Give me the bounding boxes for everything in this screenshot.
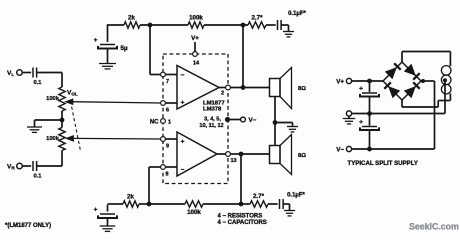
node junction top-left (pin7 feedback) xyxy=(148,23,153,28)
label 2k (top) xyxy=(128,15,135,22)
capacitor 0.1 (VR coupling) xyxy=(33,161,37,171)
label 2k (bottom) xyxy=(127,194,134,201)
label VOL xyxy=(67,90,78,97)
note LM1877 only xyxy=(5,223,51,229)
wire pin 9 to op-amp xyxy=(165,138,177,140)
label 0.1 (VR) xyxy=(33,173,42,179)
svg-text:V+: V+ xyxy=(191,35,199,42)
svg-text:0.1: 0.1 xyxy=(33,173,42,179)
svg-text:1: 1 xyxy=(168,120,171,126)
node pins to V- xyxy=(225,117,230,122)
svg-text:V−: V− xyxy=(336,147,344,154)
resistor 2.7 (top zobel) xyxy=(248,22,266,28)
label 100k (top) xyxy=(189,15,203,22)
label 100k (bottom) xyxy=(187,209,201,216)
gang dashed link between wipers xyxy=(71,101,81,151)
svg-text:4 − CAPACITORS: 4 − CAPACITORS xyxy=(218,220,267,226)
ground (bottom bypass cap) xyxy=(100,226,116,231)
wire coupling cap to VR terminal xyxy=(22,165,31,167)
svg-text:LM378: LM378 xyxy=(203,107,222,113)
wire 0V terminal stub xyxy=(348,116,350,118)
ground (split supply) xyxy=(343,119,355,124)
capacitor filter C− xyxy=(359,114,379,150)
capacitor bypass (bottom) xyxy=(94,207,117,219)
wire pin 13 to output node B xyxy=(230,153,241,155)
ground (bottom zobel) xyxy=(284,211,295,216)
wire centre tap to ground rail xyxy=(352,80,445,113)
svg-text:+: + xyxy=(359,119,363,126)
svg-text:+: + xyxy=(359,86,363,93)
wire output node to feedback rail xyxy=(242,25,244,88)
wire node to pin 7 xyxy=(150,24,161,74)
svg-text:3, 4, 5,: 3, 4, 5, xyxy=(204,116,221,122)
ground (5u cap) xyxy=(99,64,116,69)
svg-text:8Ω: 8Ω xyxy=(298,86,306,92)
pin 9 xyxy=(161,137,169,150)
watermark SeekIC.com xyxy=(409,222,459,232)
wire 100k to output node B xyxy=(203,203,241,205)
ground (pot centre) xyxy=(27,127,42,132)
bridge rectifier diamond xyxy=(383,62,421,100)
svg-text:100k: 100k xyxy=(46,96,60,102)
label 100k (lower pot) xyxy=(46,136,60,142)
wire VL to coupling cap xyxy=(22,72,31,74)
node junction bottom-right xyxy=(239,202,244,207)
wire bottom rail left segment xyxy=(108,203,124,205)
label V+ (pin14) xyxy=(191,35,199,42)
wire bottom rail to bypass cap xyxy=(107,205,109,212)
wire op-amp A output to pin 2 xyxy=(219,87,226,89)
wire 5u cap to ground xyxy=(107,48,109,63)
wire capacitor to ground (bottom zobel) xyxy=(283,204,289,211)
svg-text:9: 9 xyxy=(166,144,169,150)
caption typical split supply xyxy=(348,160,418,167)
terminal V- xyxy=(241,117,257,124)
op-amp U1B triangle xyxy=(177,132,217,176)
wire pin 6 to op-amp xyxy=(165,102,177,104)
capacitor filter C+ xyxy=(359,81,379,114)
capacitor 5u (bypass) xyxy=(94,37,128,52)
wire pin 8 to op-amp xyxy=(165,166,177,168)
ground (top zobel) xyxy=(283,32,294,37)
wire op-amp B output to pin 13 xyxy=(217,153,226,155)
terminal VL xyxy=(7,70,22,77)
potentiometer 100k lower xyxy=(59,128,65,151)
label 100k (upper pot) xyxy=(46,96,60,102)
pin 1 NC xyxy=(150,119,171,126)
label 0.1 (VL) xyxy=(33,80,42,86)
capacitor 0.1uF (top zobel) xyxy=(278,20,282,30)
capacitor 0.1uF (bottom zobel) xyxy=(280,199,284,209)
pin 6 xyxy=(161,101,169,114)
wire pins to V- terminal xyxy=(230,119,241,121)
svg-text:2.7*: 2.7* xyxy=(253,193,265,200)
wire output node B to bottom rail xyxy=(240,154,242,204)
op-amp U1A triangle xyxy=(177,66,219,110)
diode D1 (upper-left) xyxy=(386,63,401,78)
node output B xyxy=(239,152,244,157)
diode D2 (upper-right) xyxy=(405,65,420,80)
svg-text:2: 2 xyxy=(221,91,224,97)
resistor 100k (bottom) xyxy=(185,201,203,207)
wire output node to speaker 1 xyxy=(243,87,270,89)
diode D4 (lower-right) xyxy=(405,82,420,97)
svg-text:SeekIC.com: SeekIC.com xyxy=(409,222,459,232)
resistor 2k (top) xyxy=(124,22,140,28)
svg-text:0.1µF*: 0.1µF* xyxy=(288,11,306,17)
wire V+ rail xyxy=(352,80,383,82)
IC package dashed box LM1877/LM378 xyxy=(163,54,228,184)
label 0.1uF* (bottom) xyxy=(287,193,305,199)
terminal VR xyxy=(7,163,22,170)
note 4 capacitors xyxy=(218,220,267,226)
svg-text:+: + xyxy=(94,207,98,214)
wire bypass cap to ground xyxy=(107,218,109,226)
wire top rail to 5u cap xyxy=(107,24,109,42)
svg-text:7: 7 xyxy=(166,79,169,85)
terminal 0V (centre) xyxy=(346,111,351,116)
node ground cap junction xyxy=(367,111,372,116)
svg-text:+: + xyxy=(181,100,185,107)
wire junction to 100k xyxy=(149,203,185,205)
svg-text:100k: 100k xyxy=(189,15,203,22)
label LM1877 / LM378 xyxy=(203,101,225,113)
diode D3 (lower-left) xyxy=(384,82,399,97)
speaker 2 (8 ohm) xyxy=(270,135,307,175)
ground (speaker common) xyxy=(287,127,298,132)
terminal V+ (supply) xyxy=(336,78,351,85)
resistor 2k (bottom) xyxy=(123,201,139,207)
svg-text:*(LM1877 ONLY): *(LM1877 ONLY) xyxy=(5,223,51,229)
svg-text:14: 14 xyxy=(193,61,200,67)
wiper arrow upper pot to pin 6 xyxy=(65,99,160,105)
svg-text:V+: V+ xyxy=(336,79,344,86)
wire 2k to junction xyxy=(139,203,149,205)
transformer secondary winding xyxy=(441,66,451,94)
svg-text:TYPICAL SPLIT SUPPLY: TYPICAL SPLIT SUPPLY xyxy=(348,160,418,167)
pin 7 xyxy=(161,72,169,85)
wire pin 2 to output node xyxy=(230,87,243,89)
svg-text:8: 8 xyxy=(165,172,168,178)
svg-text:13: 13 xyxy=(230,158,236,164)
resistor 100k (top) xyxy=(188,22,204,28)
wire V+ stub to pin 14 xyxy=(194,42,196,52)
wire common node to speaker 2 xyxy=(274,123,276,146)
wire top rail left segment xyxy=(108,24,125,26)
wire 2k to 100k xyxy=(140,24,188,26)
pin 2 xyxy=(221,85,230,96)
resistor 2.7 (bottom zobel) xyxy=(241,201,268,207)
pin 13 xyxy=(226,152,237,164)
wire 100k to output node xyxy=(204,24,248,26)
svg-text:2k: 2k xyxy=(128,15,135,22)
wiper arrow lower pot to pin 9 xyxy=(66,136,161,142)
svg-text:8Ω: 8Ω xyxy=(298,153,306,159)
wire bridge top to transformer top xyxy=(402,52,450,67)
wire transformer bottom to bridge bottom xyxy=(402,94,450,108)
svg-text:4 − RESISTORS: 4 − RESISTORS xyxy=(218,214,263,220)
pin 14 xyxy=(193,52,200,67)
node V- cap junction xyxy=(367,147,372,152)
label pins 3,4,5,10,11,12 xyxy=(199,116,223,129)
svg-text:2.7*: 2.7* xyxy=(251,15,263,22)
capacitor 0.1 (VL coupling) xyxy=(33,68,37,78)
pin 8 xyxy=(161,165,169,178)
svg-text:0.1µF*: 0.1µF* xyxy=(287,193,305,199)
svg-text:2k: 2k xyxy=(127,194,134,201)
potentiometer 100k upper (VOL) xyxy=(59,87,65,111)
node output A xyxy=(241,85,246,90)
wire resistor to capacitor (top zobel) xyxy=(266,24,276,26)
node transformer centre tap xyxy=(443,78,447,82)
svg-text:6: 6 xyxy=(166,108,169,114)
terminal V- (supply) xyxy=(336,146,351,153)
wire lower pot to VR cap xyxy=(37,151,62,167)
wire pot junction to ground xyxy=(35,120,63,127)
svg-text:5µ: 5µ xyxy=(121,45,128,52)
wire pin 8 to bottom rail xyxy=(149,167,161,204)
wire coupling cap to pot VOL xyxy=(37,73,62,88)
wire bridge negative to V- rail xyxy=(352,81,435,149)
wire pot junction xyxy=(61,111,63,128)
note 4 resistors xyxy=(218,214,263,220)
wire pin 7 to op-amp xyxy=(165,74,177,76)
wire output node B to speaker 2 xyxy=(241,153,270,155)
node pot centre junction xyxy=(60,118,65,123)
label 2.7* (bottom) xyxy=(253,193,265,200)
node V+ cap junction xyxy=(367,79,372,84)
svg-text:+: + xyxy=(94,37,98,44)
wire capacitor to ground (top zobel) xyxy=(281,25,288,32)
node speaker common xyxy=(273,120,278,125)
wire common node to ground xyxy=(275,123,293,127)
svg-text:0.1: 0.1 xyxy=(33,80,42,86)
wire resistor to capacitor (bottom zobel) xyxy=(268,203,278,205)
svg-text:10, 11, 12: 10, 11, 12 xyxy=(199,123,223,129)
node bridge negative corner xyxy=(421,79,425,83)
wire speaker 1 to common node xyxy=(274,97,276,123)
label 0.1uF* (top) xyxy=(288,11,306,17)
svg-text:−: − xyxy=(181,167,185,174)
speaker 1 (8 ohm) xyxy=(270,68,307,109)
svg-text:V−: V− xyxy=(249,117,257,124)
svg-text:100k: 100k xyxy=(46,136,60,142)
svg-text:NC: NC xyxy=(150,120,159,126)
label 2.7* (top) xyxy=(251,15,263,22)
node junction bottom-left (pin8) xyxy=(147,202,152,207)
node junction top-right (output feedback) xyxy=(241,23,246,28)
svg-text:+: + xyxy=(181,139,185,146)
svg-text:100k: 100k xyxy=(187,209,201,216)
svg-text:−: − xyxy=(181,72,185,79)
